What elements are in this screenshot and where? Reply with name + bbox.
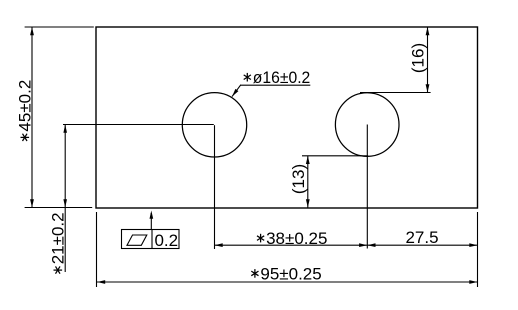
flatness tolerance 0.2 text — [154, 231, 178, 250]
label Ø16±0.2 text — [244, 68, 311, 87]
centerline vertical right hole — [366, 125, 368, 249]
extension line hole top tangent — [360, 92, 431, 94]
svg-text:21±0.2: 21±0.2 — [49, 212, 68, 264]
flatness frame leader — [150, 211, 154, 230]
dimension (13) text — [289, 164, 308, 194]
dimension 21±0.2 line — [63, 125, 67, 273]
svg-text:ø16±0.2: ø16±0.2 — [253, 68, 310, 87]
svg-text:27.5: 27.5 — [405, 228, 438, 247]
svg-text:0.2: 0.2 — [154, 231, 178, 250]
hole right (Ø16) — [335, 93, 399, 157]
dimension (13) line — [306, 156, 310, 208]
dimension 27.5 text — [405, 228, 438, 247]
dimension 95±0.25 line — [97, 280, 478, 284]
label Ø16±0.2 leader and arrow — [232, 85, 310, 97]
dimension 45±0.2 text — [16, 80, 35, 141]
centerline horizontal to left hole — [63, 124, 214, 126]
svg-text:(13): (13) — [289, 164, 308, 194]
dimension 21±0.2 text — [49, 212, 68, 273]
plate outline — [96, 27, 478, 208]
extension line bottom-left — [25, 207, 93, 209]
flatness frame box — [122, 230, 180, 249]
extension line hole bottom tangent — [302, 155, 368, 157]
hole left (Ø16) — [182, 93, 246, 157]
centerline vertical left hole — [214, 125, 216, 249]
dimension (16) text — [409, 43, 428, 73]
svg-text:45±0.2: 45±0.2 — [16, 80, 35, 132]
extension line left edge below plate — [96, 212, 98, 287]
extension line top-left — [25, 26, 94, 28]
svg-text:38±0.25: 38±0.25 — [266, 229, 327, 248]
svg-text:(16): (16) — [409, 43, 428, 73]
dimension 38±0.25 line — [215, 243, 368, 247]
dimension 27.5 line — [367, 243, 477, 247]
dimension 38±0.25 text — [257, 229, 327, 248]
svg-text:95±0.25: 95±0.25 — [260, 264, 321, 283]
dimension 95±0.25 text — [251, 264, 321, 283]
extension line right edge below plate — [477, 212, 479, 287]
flatness symbol (parallelogram) — [127, 235, 147, 245]
dimension 45±0.2 line — [30, 27, 34, 208]
dimension (16) line — [426, 27, 430, 93]
